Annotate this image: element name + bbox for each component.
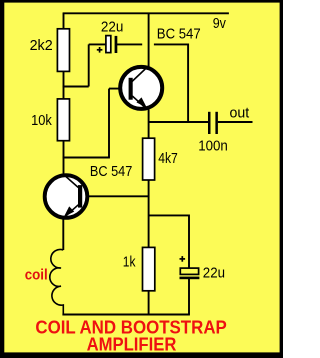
wire Q1 base lead <box>109 88 129 90</box>
svg-text:BC 547: BC 547 <box>157 27 201 43</box>
resistor 10k <box>57 99 69 141</box>
svg-text:9v: 9v <box>213 16 227 32</box>
svg-text:4k7: 4k7 <box>158 151 178 167</box>
label 100n <box>198 139 228 155</box>
wire bias node horizontal <box>63 157 110 159</box>
label 1k <box>123 254 136 270</box>
wire tap to 22u bypass cap <box>149 215 189 268</box>
wire 1k bottom lead <box>148 290 150 314</box>
label 22u top <box>101 19 124 35</box>
wire 2k2 to 10k link <box>63 71 65 100</box>
svg-text:22u: 22u <box>101 19 124 35</box>
title line 2 <box>87 334 177 354</box>
label 4k7 <box>158 151 178 167</box>
wire 4k7 bottom to base node <box>148 180 150 249</box>
svg-text:100n: 100n <box>198 139 228 155</box>
svg-text:1k: 1k <box>123 254 136 270</box>
wire bootstrap link after hop over collector <box>154 44 188 122</box>
svg-text:2k2: 2k2 <box>30 38 53 54</box>
svg-text:AMPLIFIER: AMPLIFIER <box>87 334 177 354</box>
capacitor 100n output <box>208 112 218 134</box>
wire bias tap horizontal <box>63 86 89 88</box>
svg-text:out: out <box>230 105 250 121</box>
wire bias tap vertical to bootstrap cap <box>88 44 90 86</box>
label 10k <box>31 113 52 129</box>
transistor Q1 BC547 (top) <box>120 66 162 109</box>
svg-text:10k: 10k <box>31 113 52 129</box>
wire 9v supply rail <box>63 12 229 14</box>
wire emitter node to 4k7 <box>148 122 150 139</box>
wire Q2 collector vertical <box>63 158 65 177</box>
wire Q1 base drop vertical <box>108 89 110 158</box>
wire Q2 emitter to coil <box>62 218 64 251</box>
transistor Q2 BC547 (bottom, mirrored) <box>45 175 88 218</box>
wire Q1 emitter lead <box>148 110 150 123</box>
wire 100n output lead <box>218 121 253 123</box>
resistor 4k7 <box>143 138 155 180</box>
svg-text:22u: 22u <box>203 266 225 282</box>
wire Q2 base lead <box>83 195 149 197</box>
wire bootstrap cap left lead <box>89 43 106 45</box>
wire ground rail bottom <box>62 314 189 316</box>
capacitor 22u bootstrap (electrolytic) <box>97 36 117 53</box>
svg-text:coil: coil <box>25 268 48 284</box>
label BC 547 bottom <box>90 164 132 180</box>
wire 10k bottom to bias node <box>63 141 65 158</box>
capacitor 22u bypass (electrolytic) <box>180 256 200 279</box>
title line 1 <box>35 318 226 338</box>
label 9v <box>213 16 227 32</box>
label BC 547 top <box>157 27 201 43</box>
wire Q1 collector to rail <box>148 13 150 67</box>
inductor coil <box>50 249 64 314</box>
label 2k2 <box>30 38 53 54</box>
wire 2k2 top lead <box>63 13 65 29</box>
wire bootstrap cap right lead (left of hop) <box>117 43 142 45</box>
label out <box>230 105 250 121</box>
svg-text:BC 547: BC 547 <box>90 164 132 180</box>
resistor 2k2 <box>57 29 69 72</box>
wire emitter node horizontal to 100n <box>149 121 208 123</box>
label coil (red) <box>25 268 48 284</box>
wire 22u bypass cap bottom lead <box>188 279 190 315</box>
resistor 1k <box>143 247 155 290</box>
label 22u bottom <box>203 266 225 282</box>
